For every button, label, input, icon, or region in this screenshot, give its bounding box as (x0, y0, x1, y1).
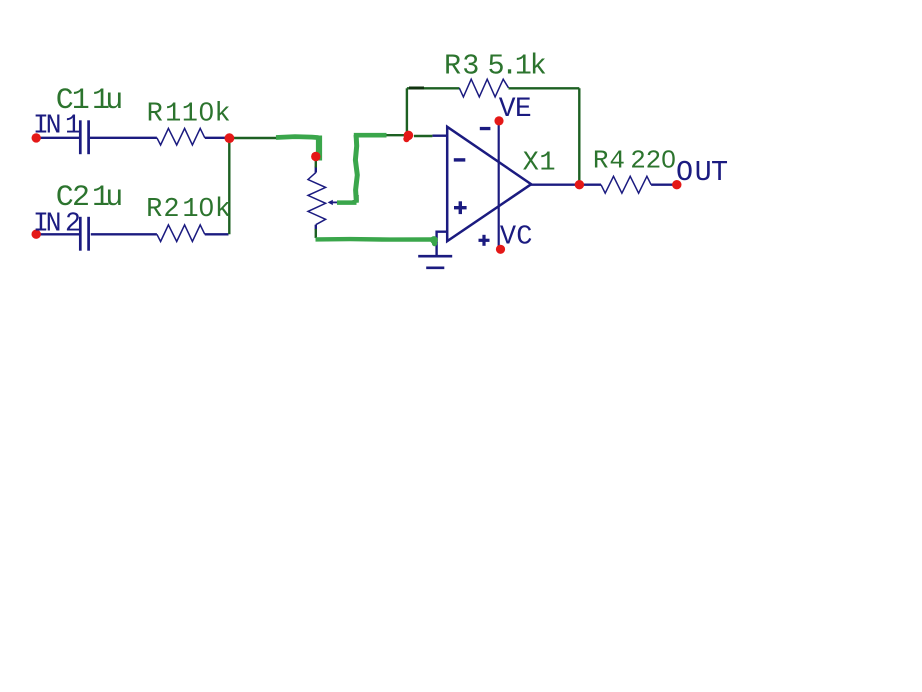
svg-text:1: 1 (65, 110, 81, 140)
svg-text:R: R (146, 195, 162, 225)
svg-text:R: R (593, 145, 609, 175)
svg-text:V: V (500, 223, 517, 253)
svg-text:1: 1 (539, 149, 555, 179)
svg-text:1: 1 (182, 195, 198, 225)
svg-text:2: 2 (163, 195, 179, 225)
svg-text:N: N (46, 208, 62, 238)
svg-text:T: T (711, 156, 728, 189)
svg-text:2: 2 (630, 145, 646, 175)
svg-text:U: U (695, 156, 712, 189)
svg-text:3: 3 (462, 49, 479, 82)
svg-text:u: u (105, 181, 123, 215)
svg-text:X: X (523, 149, 539, 179)
svg-text:R: R (444, 49, 461, 82)
svg-text:2: 2 (646, 145, 662, 175)
svg-text:k: k (214, 100, 230, 130)
svg-text:k: k (215, 195, 231, 225)
svg-text:V: V (499, 94, 516, 125)
svg-text:O: O (676, 156, 693, 189)
svg-text:1: 1 (165, 100, 181, 130)
svg-text:R: R (147, 100, 163, 130)
svg-text:E: E (515, 94, 532, 125)
svg-text:2: 2 (65, 208, 81, 238)
svg-text:N: N (46, 110, 62, 140)
svg-text:1: 1 (182, 100, 198, 130)
svg-text:C: C (516, 223, 532, 253)
svg-text:4: 4 (609, 145, 625, 175)
svg-text:k: k (530, 49, 547, 82)
svg-text:u: u (105, 84, 123, 118)
